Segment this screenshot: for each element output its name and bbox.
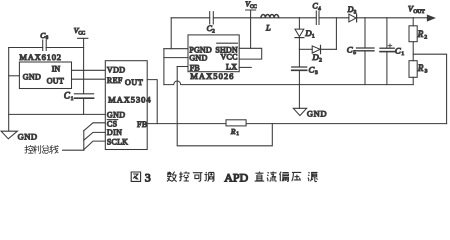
svg-text:C: C (347, 45, 353, 55)
wire ground rail with hop (164, 81, 413, 85)
wire PGND/GND down to rail (163, 49, 165, 85)
capacitor C4 (312, 2, 321, 25)
svg-text:MAX5026: MAX5026 (190, 71, 234, 81)
svg-text:R: R (417, 63, 424, 73)
svg-text:SCLK: SCLK (107, 138, 128, 147)
svg-text:IN: IN (52, 64, 61, 73)
svg-text:OUT: OUT (413, 9, 425, 15)
diode D3 (347, 5, 357, 22)
svg-text:1: 1 (236, 132, 239, 137)
capacitor C6 (40, 31, 48, 51)
svg-text:VDD: VDD (107, 66, 126, 75)
wire PGND pin (164, 48, 188, 50)
ground (left) (1, 131, 37, 142)
svg-text:1: 1 (71, 96, 74, 102)
power Vcc (left) (74, 26, 88, 94)
wire OUT to REF (72, 78, 106, 80)
wire top-left to C6 (9, 47, 43, 49)
svg-text:L: L (265, 23, 271, 33)
capacitor C5 (347, 18, 374, 85)
wire MAX5026 FB stub (177, 66, 188, 68)
svg-text:GND: GND (107, 111, 126, 120)
wire feedback loop below (177, 67, 272, 146)
svg-text:CC: CC (78, 31, 85, 36)
resistor R2 (409, 26, 427, 42)
wire C6 to Vcc (46, 47, 83, 49)
svg-text:DIN: DIN (107, 128, 122, 137)
op-amp U1 MAX6102 (19, 52, 71, 89)
wire C4 to D3 (319, 17, 349, 19)
wire D2 riser to top (335, 18, 337, 50)
svg-text:2: 2 (212, 29, 215, 34)
svg-text:LX: LX (226, 63, 237, 72)
svg-text:2: 2 (319, 58, 322, 64)
wire left vertical rail (8, 48, 10, 132)
capacitor C2 (207, 12, 216, 35)
wire control bus line (63, 149, 84, 151)
wire D1 node to C4 (299, 17, 316, 19)
svg-text:REF: REF (107, 76, 123, 85)
inductor L (261, 14, 279, 32)
svg-text:1: 1 (401, 51, 404, 57)
wire CS branch (84, 123, 106, 131)
wire Vout node down to R2 (412, 18, 414, 26)
svg-text:1: 1 (312, 33, 315, 39)
svg-text:3: 3 (145, 170, 151, 184)
svg-text:R: R (417, 29, 424, 39)
svg-text:6: 6 (46, 36, 49, 41)
svg-text:5: 5 (353, 50, 356, 56)
op-amp U2 MAX5304 (105, 61, 151, 150)
wire left ground rail (9, 113, 106, 115)
svg-text:OUT: OUT (125, 78, 143, 87)
wire SHDN/VCC tie loop (239, 48, 262, 59)
capacitor C3 (292, 65, 318, 85)
svg-text:3: 3 (425, 68, 428, 74)
node Vout arrow (408, 4, 435, 20)
wire D3 to Vout node (357, 17, 413, 19)
svg-text:VCC: VCC (220, 53, 237, 62)
wire R3 to ground rail (412, 77, 414, 84)
resistor R3 (409, 61, 428, 78)
wire SCLK branch (84, 141, 106, 150)
caption 图3 数控可调 APD 直流偏压源 (131, 170, 317, 184)
node control bus label 控制总线 (25, 145, 58, 153)
svg-text:APD: APD (224, 170, 248, 184)
ground (right) (293, 85, 327, 119)
diode D1 (295, 18, 315, 40)
svg-text:4: 4 (318, 7, 321, 12)
wire D1 to D2 junction (298, 38, 300, 50)
svg-text:MAX5304: MAX5304 (108, 94, 152, 104)
wire D1 node to C3 (298, 49, 300, 67)
svg-text:C: C (309, 65, 315, 75)
svg-text:D: D (347, 5, 354, 14)
wire top C2 segment (171, 17, 250, 19)
resistor R1 (226, 120, 246, 137)
diode D2 (299, 45, 336, 63)
op-amp U3 MAX5026 (188, 35, 239, 81)
capacitor C1 (reference bypass) (64, 91, 94, 115)
wire divider tap to feedback (413, 54, 446, 123)
svg-text:GND: GND (23, 73, 41, 82)
svg-text:MAX6102: MAX6102 (19, 52, 61, 62)
svg-text:2: 2 (424, 35, 427, 41)
wire DIN branch (84, 132, 106, 140)
wire bus vertical (83, 131, 85, 151)
svg-text:FB: FB (137, 120, 148, 129)
svg-text:R: R (230, 127, 236, 136)
wire C2 left drop (170, 18, 172, 49)
wire MAX5304 OUT down (147, 80, 157, 124)
wire FB to R1 (147, 123, 226, 125)
svg-text:GND: GND (18, 132, 38, 142)
wire top Vcc to D1 node (251, 17, 300, 19)
svg-text:CC: CC (250, 5, 257, 10)
wire R2 to R3 (412, 42, 414, 61)
capacitor C1 (output, polarized) (380, 18, 404, 85)
wire LX stub (239, 66, 251, 68)
svg-text:GND: GND (307, 109, 327, 119)
power Vcc (right) (245, 0, 257, 48)
wire MAX6102 GND pin (9, 75, 20, 77)
svg-text:C: C (395, 45, 401, 55)
wire R1 to divider tap riser (246, 123, 447, 125)
svg-text:3: 3 (315, 70, 318, 76)
svg-text:GND: GND (189, 54, 207, 63)
wire GND pin (164, 57, 188, 59)
wire IN to VDD (72, 69, 106, 71)
svg-text:OUT: OUT (47, 76, 64, 85)
